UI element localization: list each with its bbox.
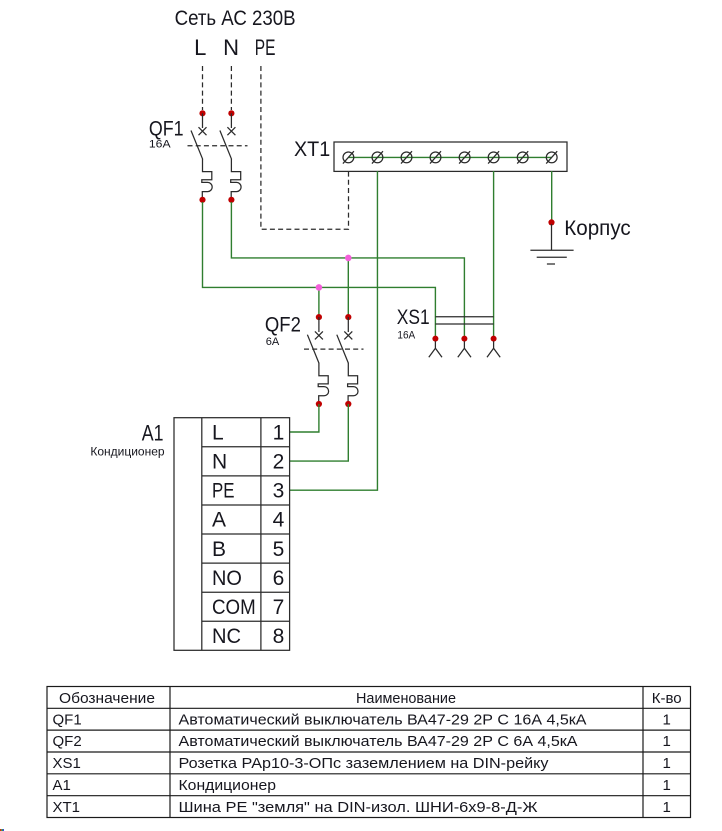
XT1 terminal 2: [372, 151, 383, 163]
parts table row QF1: [53, 711, 671, 728]
wire: PE supply dashed path to XT1 terminal 1: [261, 66, 349, 229]
svg-text:Кондиционер: Кондиционер: [90, 445, 165, 459]
svg-text:QF1: QF1: [53, 711, 82, 728]
parts table grid: [47, 687, 691, 818]
QF2 pole 1 output junction: [316, 401, 322, 407]
svg-text:Розетка РАр10-3-ОПс заземление: Розетка РАр10-3-ОПс заземлением на DIN-р…: [179, 755, 550, 772]
XS1 pin N contact: [458, 341, 471, 357]
terminal block XT1 body: [334, 142, 567, 171]
svg-text:А1: А1: [142, 421, 164, 446]
XT1 terminal 8: [546, 151, 557, 163]
QF2 mechanical linkage: [304, 348, 364, 350]
wire: QF1 N output to XS1 middle pin: [231, 202, 464, 339]
ground (chassis) symbol: [530, 224, 573, 264]
svg-text:1: 1: [663, 777, 671, 794]
svg-text:8: 8: [273, 625, 285, 648]
QF1 pole 1 output junction: [199, 197, 205, 203]
svg-text:Автоматический выключатель ВА4: Автоматический выключатель ВА47-29 2Р С …: [179, 733, 578, 750]
svg-text:А1: А1: [53, 777, 71, 794]
parts table row XS1: [53, 755, 671, 772]
wire: XT1 terminal 8 to chassis: [551, 171, 553, 222]
svg-text:Кондиционер: Кондиционер: [179, 777, 277, 794]
XT1 internal bus wire: [348, 156, 551, 158]
XT1 terminal 6: [488, 151, 499, 163]
XT1 terminal 7: [517, 151, 528, 163]
wire: QF2 pole 2 output to A1 pin 2: [290, 404, 349, 461]
svg-text:A: A: [212, 509, 226, 532]
svg-text:К-во: К-во: [652, 690, 682, 707]
QF2 pole 1 input junction: [316, 314, 322, 320]
svg-text:6А: 6А: [266, 336, 280, 348]
wire: branch to QF2 pole 2 input: [347, 258, 349, 317]
wire: QF1 L output to XS1 left pin: [203, 202, 436, 339]
XS1 pin L junction: [432, 336, 438, 342]
svg-text:6: 6: [273, 567, 285, 590]
svg-text:Шина РЕ "земля" на DIN-изол. Ш: Шина РЕ "земля" на DIN-изол. ШНИ-6х9-8-Д…: [179, 799, 538, 816]
svg-text:XT1: XT1: [53, 799, 81, 816]
A1 terminal strip grid: [202, 418, 290, 651]
breaker QF2 pole 1: [307, 317, 328, 401]
parts table header: [59, 690, 682, 707]
svg-text:PE: PE: [212, 480, 235, 503]
svg-text:PE: PE: [255, 35, 276, 60]
svg-text:1: 1: [663, 799, 671, 816]
svg-text:Обозначение: Обозначение: [59, 690, 155, 707]
XS1 pin N junction: [461, 336, 467, 342]
svg-text:QF2: QF2: [265, 313, 301, 336]
breaker QF2 pole 2: [337, 317, 358, 401]
QF2 pole 2 input junction: [345, 314, 351, 320]
svg-text:Наименование: Наименование: [356, 690, 456, 707]
svg-text:L: L: [194, 35, 206, 60]
breaker QF1 pole 1: [191, 113, 212, 197]
svg-text:QF1: QF1: [149, 118, 184, 141]
chassis connection junction: [548, 219, 554, 225]
QF1 pole 2 output junction: [228, 197, 234, 203]
svg-text:16А: 16А: [149, 139, 171, 151]
svg-text:NO: NO: [212, 567, 242, 590]
XS1 pin PE contact: [487, 341, 500, 357]
XT1 terminal 3: [401, 151, 412, 163]
wire: N supply dashed drop: [230, 66, 232, 110]
wire: QF2 pole 1 output to A1 pin 1: [290, 404, 319, 432]
svg-text:Сеть АС 230В: Сеть АС 230В: [175, 7, 296, 30]
svg-text:2: 2: [273, 451, 285, 474]
svg-text:COM: COM: [212, 596, 256, 619]
device A1 body: [174, 418, 290, 651]
svg-text:Корпус: Корпус: [564, 217, 630, 240]
XS1 pin L contact: [429, 341, 442, 357]
svg-text:3: 3: [273, 480, 285, 503]
junction node on L wire: [316, 284, 323, 291]
wire: XT1 terminal 2 to A1 pin 3 (PE): [290, 171, 378, 490]
svg-text:QF2: QF2: [53, 733, 82, 750]
junction node on N wire: [345, 255, 352, 262]
svg-text:1: 1: [663, 733, 671, 750]
svg-text:Автоматический выключатель ВА4: Автоматический выключатель ВА47-29 2Р С …: [179, 711, 587, 728]
svg-text:N: N: [212, 451, 227, 474]
svg-text:16А: 16А: [397, 329, 415, 341]
svg-text:1: 1: [663, 711, 671, 728]
parts table row XT1: [53, 799, 671, 816]
parts table row QF2: [53, 733, 671, 750]
QF2 pole 2 output junction: [345, 401, 351, 407]
svg-text:XS1: XS1: [53, 755, 81, 772]
svg-text:B: B: [212, 538, 226, 561]
svg-text:XT1: XT1: [294, 138, 330, 161]
svg-text:L: L: [212, 422, 224, 445]
svg-text:4: 4: [273, 509, 285, 532]
junction: QF1 L input: [199, 110, 205, 116]
svg-text:N: N: [223, 35, 239, 60]
junction: QF1 N input: [228, 110, 234, 116]
wire: branch to QF2 pole 1 input: [318, 287, 320, 317]
XT1 terminal 1: [343, 151, 354, 163]
XT1 terminal 5: [459, 151, 470, 163]
socket XS1 body bars: [435, 317, 493, 324]
wire: XT1 terminal 6 to XS1 right pin: [493, 171, 495, 339]
page artifact speck: [0, 829, 4, 831]
XS1 pin PE junction: [491, 336, 497, 342]
svg-text:7: 7: [273, 596, 285, 619]
breaker QF1 pole 2: [220, 113, 241, 197]
QF1 mechanical linkage: [188, 145, 248, 147]
svg-text:XS1: XS1: [397, 306, 430, 329]
svg-text:1: 1: [663, 755, 671, 772]
XT1 terminal 4: [430, 151, 441, 163]
svg-text:NC: NC: [212, 625, 241, 648]
parts table row A1: [53, 777, 671, 794]
svg-text:1: 1: [273, 422, 285, 445]
wire: L supply dashed drop: [202, 66, 204, 110]
svg-text:5: 5: [273, 538, 285, 561]
